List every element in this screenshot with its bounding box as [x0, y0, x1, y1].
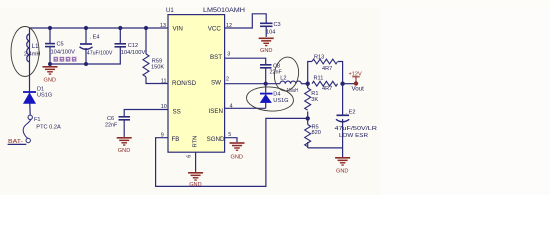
wire: E4 stubs	[85, 28, 87, 44]
svg-text:BST: BST	[210, 54, 222, 61]
svg-text:ISEN: ISEN	[209, 108, 223, 115]
wire: RTN pin6 stub	[195, 152, 197, 172]
inductor L2	[280, 81, 301, 84]
svg-text:13: 13	[160, 23, 166, 29]
op-amp U1 LM5010AMH (IC body)	[168, 15, 225, 153]
wire: FB return loop	[156, 118, 308, 186]
resistor R59	[143, 54, 149, 77]
wire: BST to C8	[225, 58, 266, 64]
capacitor C8	[260, 65, 272, 68]
svg-text:2: 2	[226, 77, 229, 83]
diode D4	[260, 94, 273, 103]
svg-text:L2: L2	[280, 75, 286, 81]
junction dots	[48, 26, 345, 121]
svg-text:4: 4	[230, 103, 233, 109]
svg-text:SS: SS	[173, 109, 181, 116]
wire: C5 to gnd stub	[49, 28, 51, 43]
wire: SS to C6	[124, 110, 168, 117]
svg-text:. E4: . E4	[90, 34, 100, 40]
wire: R1-R5 rail	[307, 84, 309, 88]
svg-text:GND: GND	[189, 182, 201, 188]
annotation ellipse around L2	[272, 55, 300, 92]
capacitor C6	[119, 117, 131, 120]
wire: left rail L1-D1-F1	[29, 62, 31, 104]
ground (output)	[335, 157, 350, 166]
capacitor C5	[45, 44, 55, 47]
resistor R11	[312, 81, 338, 86]
ground (SGND)	[230, 142, 245, 151]
resistor R13	[312, 59, 338, 64]
wire: R59 branch	[145, 28, 147, 54]
ground (C3)	[259, 38, 274, 47]
svg-text:. E2: . E2	[346, 110, 356, 116]
svg-text:11: 11	[161, 78, 167, 84]
port BAT-	[8, 143, 27, 145]
svg-text:US1G: US1G	[37, 93, 52, 99]
svg-text:104/100V: 104/100V	[121, 50, 146, 56]
wire: node B to +12V port	[343, 83, 354, 85]
svg-text:R13: R13	[314, 54, 324, 60]
svg-text:SGND: SGND	[207, 136, 225, 143]
svg-text:47uF/50V/LR: 47uF/50V/LR	[335, 126, 378, 132]
svg-text:12: 12	[226, 23, 232, 29]
resistor R1	[305, 88, 311, 110]
svg-text:R11: R11	[314, 76, 324, 82]
svg-text:F1: F1	[34, 117, 41, 123]
svg-text:Vout: Vout	[352, 86, 365, 93]
svg-text:5: 5	[228, 132, 231, 138]
svg-text:LM5010AMH: LM5010AMH	[203, 8, 245, 14]
ground (C6)	[117, 137, 132, 146]
svg-text:820: 820	[312, 130, 321, 136]
resistor R5	[305, 125, 311, 147]
svg-text:104: 104	[266, 30, 275, 36]
wire: bottom rail C5-E4-C12	[50, 47, 120, 64]
svg-text:GND: GND	[336, 169, 348, 175]
svg-text:3K: 3K	[311, 97, 318, 103]
svg-text:GND: GND	[118, 148, 130, 154]
svg-text:4R7: 4R7	[322, 86, 332, 92]
capacitor E4	[80, 44, 93, 49]
svg-text:22nF: 22nF	[105, 123, 118, 129]
pin numbers	[160, 23, 233, 158]
capacitor C3	[260, 23, 273, 26]
wire: SW rail to node A	[225, 83, 280, 85]
pin names	[172, 25, 226, 147]
fuse F1 (PTC)	[23, 115, 32, 143]
svg-text:3: 3	[227, 51, 230, 57]
capacitor E2	[336, 115, 349, 122]
annotation ellipse around D4	[246, 85, 295, 112]
svg-text:9: 9	[161, 133, 164, 139]
wire: top VIN rail	[30, 28, 169, 62]
svg-text:VIN: VIN	[173, 25, 183, 32]
svg-text:RON/SD: RON/SD	[172, 80, 197, 87]
svg-text:LOW ESR: LOW ESR	[339, 133, 368, 139]
wire: bottom out rail	[308, 147, 343, 149]
diode D1	[23, 92, 36, 104]
ground (RTN pin6)	[188, 172, 203, 181]
ground (C5)	[43, 66, 58, 75]
svg-text:47uF/100V: 47uF/100V	[87, 51, 113, 57]
svg-text:C6: C6	[107, 116, 114, 122]
svg-text:BAT-: BAT-	[8, 139, 23, 145]
inductor L1	[27, 34, 30, 62]
svg-text:100uH: 100uH	[287, 88, 299, 94]
wire: SGND to gnd	[225, 138, 237, 142]
svg-text:FB: FB	[172, 136, 180, 143]
svg-text:+12V: +12V	[349, 72, 362, 78]
power port +12V / Vout	[354, 81, 358, 85]
svg-text:VCC: VCC	[208, 25, 222, 32]
svg-text:U1: U1	[166, 8, 174, 14]
svg-text:RTN: RTN	[193, 136, 199, 148]
svg-text:GND: GND	[260, 48, 272, 54]
wire: E2 stubs	[342, 84, 344, 115]
svg-text:GND: GND	[231, 155, 243, 161]
svg-text:C5: C5	[57, 41, 64, 47]
svg-text:US1G: US1G	[273, 98, 288, 104]
wire: D4 branch	[265, 84, 267, 93]
svg-text:D4: D4	[273, 91, 280, 97]
svg-text:150K: 150K	[151, 64, 164, 70]
svg-text:2.4mH: 2.4mH	[24, 52, 40, 58]
svg-text:104/100V: 104/100V	[51, 50, 76, 56]
svg-text:PTC 0.2A: PTC 0.2A	[36, 124, 61, 130]
svg-text:SW: SW	[211, 79, 221, 86]
wire: VCC to C3	[225, 14, 267, 28]
wire: R13 parallel loop	[308, 62, 312, 84]
svg-text:10: 10	[161, 104, 167, 110]
wire: ISEN	[225, 107, 266, 109]
svg-text:C3: C3	[274, 22, 281, 28]
note (purple)	[54, 57, 77, 62]
capacitor C12	[115, 44, 127, 47]
svg-text:L1: L1	[32, 44, 39, 50]
svg-text:6: 6	[187, 155, 193, 158]
svg-text:C12: C12	[128, 43, 138, 49]
wire: C12 top stub	[119, 28, 121, 43]
svg-text:GND: GND	[44, 78, 56, 84]
svg-text:4R7: 4R7	[322, 66, 332, 72]
annotation ellipse around L1	[11, 27, 39, 77]
